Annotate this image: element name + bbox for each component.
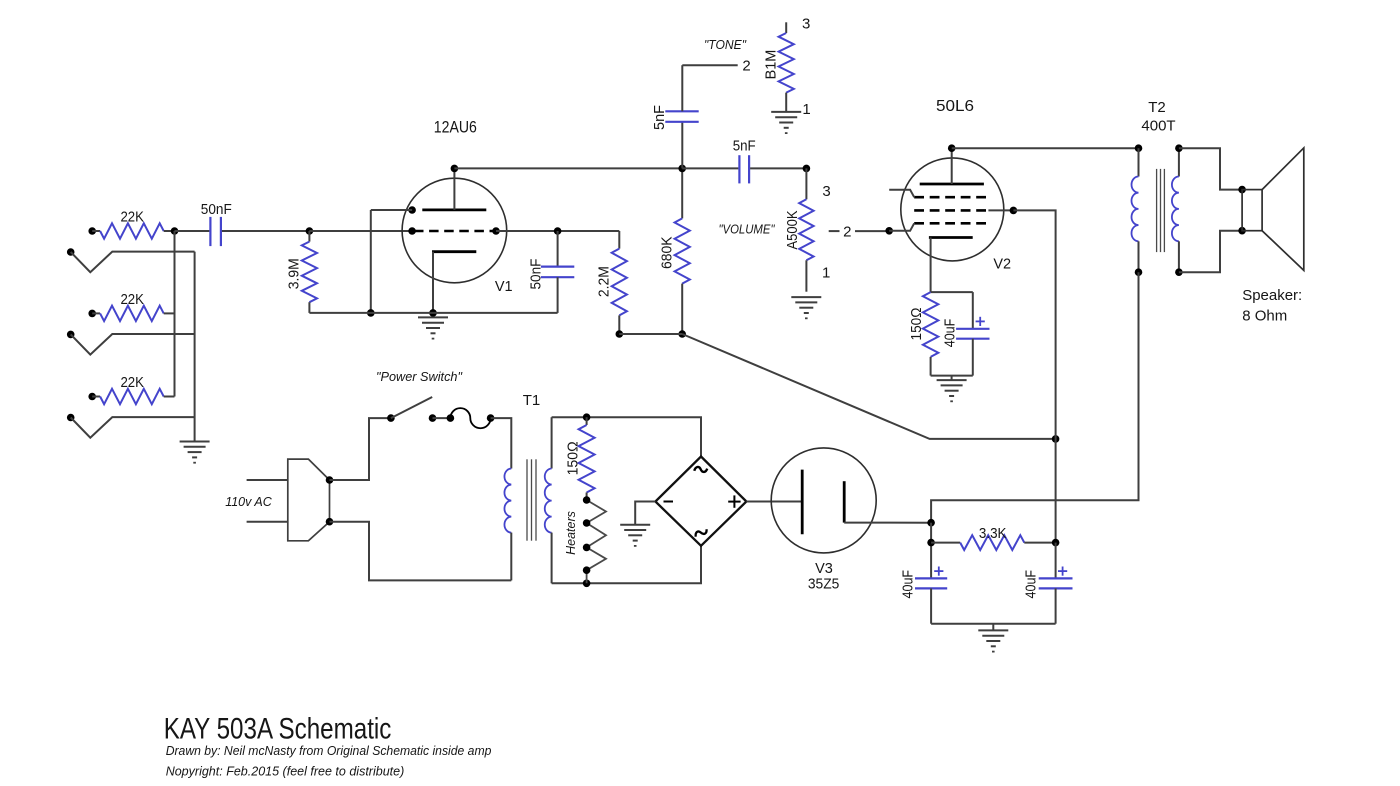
node E (volume top) [803,165,811,173]
label 22K (input 1) [120,210,144,226]
fuse [450,408,494,428]
svg-text:40uF: 40uF [943,319,959,348]
label 150&#937; (V2 cathode) [909,307,925,340]
switch to fuse [429,414,455,422]
potentiometer A500K (volume) [799,168,813,291]
svg-text:Drawn by: Neil mcNasty from Or: Drawn by: Neil mcNasty from Original Sch… [166,743,492,758]
label 3.9M [286,258,302,289]
tube V2 cathode [929,238,973,293]
heater string [583,496,606,583]
svg-text:12AU6: 12AU6 [434,118,477,137]
subtitle drawn by [166,743,492,758]
wire T2 to speaker - [1179,231,1242,273]
wire T2 primary to B+ rail [931,272,1138,523]
label V3 [815,561,833,577]
svg-text:110v AC: 110v AC [225,494,272,509]
subtitle nopyright [166,763,405,778]
svg-text:50nF: 50nF [529,258,545,289]
resistor 150&#937; (dropper) [579,417,595,500]
node plug hot [326,476,334,484]
wire tone wiper [682,64,737,66]
svg-text:"TONE": "TONE" [704,37,747,52]
wire filter bottom rail [931,624,1056,631]
wire V2 plate to T2 [952,147,1139,149]
label 150&#937; (dropper) [565,441,581,475]
tube V3 envelope [771,448,876,553]
wire bridge minus to ground [635,502,655,525]
speaker [1242,148,1304,271]
node B+ feed [1052,435,1060,443]
node V1 cathode ground [429,309,437,317]
resistor 3.3K [931,535,1056,550]
tube V1 cathode [432,252,476,313]
svg-text:V2: V2 [993,256,1011,272]
wire 2.2M-680K rail [619,333,682,335]
label 50L6 [936,98,974,115]
label Speaker: [1242,287,1302,304]
transformer T2 primary [1132,148,1139,272]
label V2 [993,256,1011,272]
wire B+ diagonal [682,334,1055,439]
node T2 secondary bottom [1175,268,1183,276]
transformer T1 primary [504,469,511,581]
tube V2 envelope [901,158,1004,261]
svg-text:22K: 22K [120,375,144,391]
label 50nF C2 [529,258,545,289]
ground (V1 cathode) [418,317,448,338]
wire cathode net top [931,291,973,293]
label - (bridge left) [664,501,674,503]
tube V1 plate [422,168,486,210]
label + (filter 2) [1058,567,1067,576]
wire bridge plus to V3 [746,501,802,503]
label "Power Switch" [376,369,463,384]
label B1M [763,50,779,80]
svg-text:35Z5: 35Z5 [808,577,840,593]
wire node D to C4 [682,167,738,169]
svg-text:8 Ohm: 8 Ohm [1242,307,1287,324]
node C (V1 out / C2 top) [554,227,562,235]
AC plug body [288,459,330,541]
svg-text:1: 1 [822,265,830,282]
node heater resistor top [583,413,591,421]
svg-text:3: 3 [822,183,830,200]
resistor 22K (input 1) [100,223,174,238]
svg-text:40uF: 40uF [901,570,917,599]
input jack J2 sleeve switch [67,331,195,355]
svg-text:5nF: 5nF [733,139,756,155]
speaker terminals [1238,186,1246,235]
label "TONE" [704,37,747,52]
label 50nF C1 [201,202,232,218]
tube V2 plate [920,148,984,184]
node 3.3K right [1052,539,1060,547]
node plug neutral [326,518,334,526]
transformer T2 core [1157,169,1165,252]
wire C1 to R4 node [222,230,310,232]
capacitor 50nF C2 [541,231,574,313]
title KAY 503A Schematic [164,713,392,746]
capacitor 40uF (V2 cathode) [956,292,989,376]
label pin 2 (tone pot) [742,57,750,74]
label T1 [523,392,541,409]
wire plug to switch [330,418,391,480]
node T2 primary bottom [1135,268,1143,276]
ground (bridge) [620,525,650,546]
input jack J1 tip terminal [88,227,100,235]
svg-text:50L6: 50L6 [936,98,974,115]
AC plug prong bottom [247,521,288,523]
switch blade [391,397,432,418]
junction node A (input mix) [171,227,179,235]
label 110v AC [225,494,272,509]
tube V2 screen stub [889,190,914,198]
label pin 1 (volume pot) [822,265,830,282]
label pin 3 (tone pot) [802,16,810,33]
input jack J3 tip terminal [88,393,100,401]
label 35Z5 [808,577,840,593]
label 12AU6 [434,118,477,137]
resistor 2.2M [612,231,627,334]
label 5nF C4 [733,139,756,155]
label 22K (input 3) [120,375,144,391]
label 40uF (filter 1) [901,570,917,599]
label 400T [1141,118,1175,135]
svg-text:Speaker:: Speaker: [1242,287,1302,304]
svg-text:1: 1 [802,101,810,118]
ground (volume pot) [791,297,821,318]
transformer T1 core [527,459,536,540]
tube V2 beam row [914,209,988,212]
node 3.3K left [927,539,935,547]
svg-text:B1M: B1M [763,50,779,80]
svg-text:Nopyright: Feb.2015 (feel free: Nopyright: Feb.2015 (feel free to distri… [166,763,405,778]
bridge rectifier [655,457,746,546]
input jack J2 tip terminal [88,310,100,318]
wire T1 primary return [330,522,512,581]
ground (input jacks) [180,442,210,463]
wire input bus [174,231,176,397]
tube V1 envelope [402,178,507,283]
svg-text:150Ω: 150Ω [909,307,925,340]
wire V1 grid out [496,230,619,232]
resistor 680K [675,168,690,334]
capacitor 40uF (filter 1) [915,578,947,623]
switch contact [387,414,395,422]
label + (V2 cathode cap) [976,317,985,326]
label 40uF (filter 2) [1024,570,1040,599]
resistor 22K (input 3) [100,389,174,404]
label pin 2 (volume pot) [843,223,851,240]
wire screen to B+ [1013,210,1055,542]
node T2 secondary top [1175,144,1183,152]
label ~ (bridge bottom) [694,528,708,538]
svg-text:V1: V1 [495,279,513,295]
ground (tone pot) [771,112,801,133]
input jack J3 sleeve switch [67,414,195,438]
svg-text:50nF: 50nF [201,202,232,218]
wire V3 cathode out [844,522,931,524]
node V3 cathode junction [927,519,935,527]
wire T2 to speaker + [1179,148,1242,189]
node T2 primary top [1135,144,1143,152]
wire C4 to volume pot [750,167,806,169]
wire filter left [930,523,932,579]
label 680K [659,236,675,269]
capacitor 40uF (filter 2) [1039,543,1073,624]
AC plug prong top [247,479,288,481]
transformer T1 secondary [545,417,552,583]
capacitor 50nF C1 [210,217,221,246]
node 680K bottom [678,330,686,338]
node V2 screen [1010,207,1018,215]
svg-text:A500K: A500K [785,210,801,249]
resistor 3.9M [302,231,317,313]
tube V2 control grid row [914,222,988,225]
node V1 plate [451,165,459,173]
label 3.3K [979,526,1007,542]
node B (V1 grid) [306,227,314,235]
svg-text:Heaters: Heaters [564,511,578,555]
wire fuse to T1 [491,418,512,468]
node heater string bottom [583,580,591,588]
node D (tone/coupling) [678,165,686,173]
capacitor 5nF C4 [739,155,749,183]
svg-text:400T: 400T [1141,118,1175,135]
tube V3 anode [801,470,804,535]
input jack J1 sleeve switch [67,248,195,272]
wire T1 secondary top rail [552,417,701,456]
node V2 plate [948,144,956,152]
tube V2 screen grid row [914,196,988,199]
capacitor 5nF C3 (tone) [665,65,698,168]
ground (V2 cathode) [937,380,967,401]
svg-text:22K: 22K [120,292,144,308]
svg-text:2: 2 [843,223,851,240]
label + (filter 1) [934,567,943,576]
potentiometer B1M (tone) [779,22,794,112]
label V1 [495,279,513,295]
svg-text:5nF: 5nF [652,105,668,130]
label "VOLUME" [719,222,776,237]
svg-text:3.3K: 3.3K [979,526,1007,542]
svg-text:2: 2 [742,57,750,74]
wire V1 screen down [367,210,375,317]
svg-text:T2: T2 [1148,99,1166,116]
wire cathode net bottom [931,376,973,381]
wire sleeve ground bus [194,252,196,442]
svg-text:22K: 22K [120,210,144,226]
label 2.2M [596,266,612,297]
wire volume wiper b [855,230,889,232]
tube V2 grid lead [885,223,914,234]
svg-text:150Ω: 150Ω [565,441,581,475]
wire node B to V1 grid [309,230,412,232]
label pin 1 (tone pot) [802,101,810,118]
svg-text:"Power Switch": "Power Switch" [376,369,463,384]
svg-text:KAY 503A Schematic: KAY 503A Schematic [164,713,392,746]
svg-text:"VOLUME": "VOLUME" [719,222,776,237]
label Heaters [564,511,578,555]
svg-text:3: 3 [802,16,810,33]
svg-text:680K: 680K [659,236,675,269]
tube V1 screen stub [371,206,416,214]
wire V1 plate to node D [454,167,682,169]
label 8 Ohm [1242,307,1287,324]
svg-text:T1: T1 [523,392,541,409]
wire V2 screen out [988,209,1013,211]
ground (filter) [978,630,1008,651]
wire volume wiper a [829,230,840,232]
transformer T2 secondary [1172,148,1179,272]
label 5nF C3 [652,105,668,130]
label pin 3 (volume pot) [822,183,830,200]
wire cathode rail [309,312,557,314]
svg-text:40uF: 40uF [1024,570,1040,599]
wire T1 secondary bottom rail [552,546,701,584]
label ~ (bridge top) [694,467,707,472]
label A500K [785,210,801,249]
label 22K (input 2) [120,292,144,308]
svg-text:3.9M: 3.9M [286,258,302,289]
label 40uF (V2 cathode) [943,319,959,348]
tube V3 cathode [843,481,846,522]
svg-text:V3: V3 [815,561,833,577]
tube V1 grid [408,227,500,235]
wire node A to C1 [175,230,210,232]
label T2 [1148,99,1166,116]
resistor 22K (input 2) [100,306,174,321]
svg-text:2.2M: 2.2M [596,266,612,297]
resistor 150&#937; (V2 cathode) [923,292,938,376]
label + (bridge right) [728,495,740,507]
node 2.2M bottom [616,330,624,338]
